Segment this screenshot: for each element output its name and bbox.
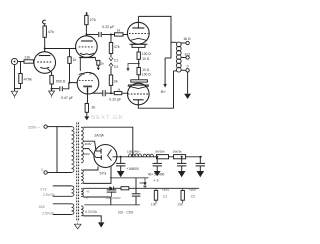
diode D1 [109,186,113,190]
wire [15,65,21,89]
capacitor Cb [148,157,165,183]
svg-text:C2: C2 [191,194,195,198]
triode V2a [76,36,98,58]
svg-text:6.3V/3A: 6.3V/3A [85,210,98,214]
svg-text:10 Ω: 10 Ω [142,68,150,72]
wire [111,92,128,94]
terminal 0V [41,168,57,174]
triode V1 [34,52,56,74]
pentode V3 [127,22,149,44]
V2a cathode network [79,58,98,72]
svg-text:2A/3A: 2A/3A [95,133,105,137]
svg-text:1k: 1k [117,87,121,91]
core T1 [77,123,79,222]
ground [184,72,191,99]
transformer T2 primary wire [171,42,177,71]
wire [20,84,22,89]
wire [85,25,87,36]
wire to C2 [97,65,100,70]
svg-text:100/240v: 100/240v [127,149,140,153]
svg-text:300V: 300V [85,142,92,146]
node [181,156,183,158]
wire [48,69,52,76]
ground core [74,222,81,229]
resistor 100/10 upper [137,52,151,61]
wire [18,61,24,63]
label 620 [118,211,133,215]
resistor R3 47k [43,26,54,37]
svg-text:2k: 2k [92,106,96,110]
svg-text:C2: C2 [114,65,119,69]
V4 base [128,80,149,85]
svg-text:10k/2k: 10k/2k [173,150,183,154]
wire bus2 [84,204,140,206]
wire [110,54,112,58]
wire tap 300V a [83,141,96,151]
svg-text:2Y3: 2Y3 [40,187,46,191]
svg-text:27k: 27k [90,18,96,22]
wire [83,216,101,223]
pentode V4 [128,83,150,105]
resistor R620 [121,187,129,190]
resistor 10/100 lower [137,68,151,77]
wire [138,71,173,108]
node [120,156,122,158]
winding 5Y3 fil [40,186,74,197]
node A [44,48,46,50]
svg-text:500 Ω: 500 Ω [56,80,66,84]
svg-text:11k: 11k [24,55,30,59]
capacitor 100u [83,188,120,200]
ground [84,112,89,120]
svg-text:1k: 1k [117,29,121,33]
wire [52,88,59,90]
node [156,156,158,158]
node [199,156,201,158]
B+ tap [161,58,171,94]
ground bus [110,177,149,179]
svg-text:1k: 1k [73,58,77,62]
wire [114,187,199,189]
svg-text:2A3: 2A3 [39,205,45,209]
resistor 5k/10k [156,150,169,159]
wire tap 0 [181,69,186,71]
svg-text:10 Ω: 10 Ω [142,57,150,61]
V3 base [130,44,148,52]
svg-text:5Y3: 5Y3 [100,172,107,176]
resistor R8 2k [109,75,118,85]
svg-text:+45V: +45V [188,188,197,192]
svg-text:2.5V/3A: 2.5V/3A [43,193,56,197]
svg-text:16 Ω: 16 Ω [183,37,191,41]
wire [138,75,140,80]
svg-text:C1: C1 [163,194,167,198]
transformer T1 primary [57,127,74,173]
resistor 10k C2 [177,188,196,206]
diode D2 [143,178,146,188]
wire [137,16,139,28]
svg-text:+ 5/600V: + 5/600V [126,167,140,171]
terminal 8ohm [185,52,191,59]
wire tap 300V b [83,149,96,158]
watermark [91,115,124,121]
node C [110,34,112,36]
wire [44,37,46,52]
terminal 16ohm [183,37,191,45]
svg-text:0: 0 [187,64,189,68]
svg-text:100µ/160V: 100µ/160V [106,196,121,200]
input jack J1 [11,58,17,64]
wire bias [83,187,109,189]
terminal 0 [186,64,189,72]
choke L1 [127,149,154,156]
capacitor Cd [196,157,205,177]
svg-text:0.47 µF: 0.47 µF [61,96,73,100]
resistor R12 2k [97,60,105,65]
resistor R11 2k [85,94,95,112]
terminal 220V [28,125,57,129]
svg-text:300V: 300V [83,152,90,156]
svg-text:620 · C5W: 620 · C5W [118,211,133,215]
winding 5V [81,166,111,183]
transformer T2 coil [176,42,181,72]
svg-text:47k: 47k [114,45,120,49]
wire [69,63,78,83]
capacitor 0.47uF [60,83,73,100]
wire [110,35,112,43]
wire [102,34,111,36]
terminal C [43,20,46,26]
winding 2A3 fil [39,204,74,216]
svg-text:2k: 2k [114,80,118,84]
resistor R10 1k [68,49,77,64]
wire [111,34,127,36]
wire arrow [127,64,139,72]
connector C2 [109,63,119,69]
wire [110,85,112,94]
wire [138,16,171,58]
node B [85,34,87,36]
svg-text:40+ 5V/400: 40+ 5V/400 [148,172,165,176]
winding bias [81,189,90,201]
capacitor Cc [177,157,186,177]
svg-text:C1: C1 [114,58,119,62]
svg-text:B+: B+ [161,89,167,94]
capacitor Ce [132,178,145,205]
wire [86,34,98,36]
wire [20,62,22,74]
rectifier V5 5Y3 [94,145,117,176]
resistor R4 500 [50,75,66,84]
svg-text:30k: 30k [139,181,144,185]
svg-text:2.5V/3A: 2.5V/3A [42,211,55,215]
svg-text:+45V: +45V [162,188,171,192]
resistor R9 1k [114,87,122,94]
wire [51,84,53,90]
svg-text:0.22 µF: 0.22 µF [102,25,114,29]
ground [49,89,55,98]
wire [34,61,35,63]
capacitor C2 0.22uF [99,25,114,37]
svg-text:10k: 10k [151,203,157,207]
ground [98,222,104,227]
wire [92,92,102,94]
svg-text:× 3: × 3 [153,179,158,183]
capacitor Ca [116,157,140,177]
capacitor C3 0.22uF [103,90,121,101]
resistor R7 47k [109,43,119,54]
terminal B [86,12,88,15]
wire [45,48,76,50]
winding 6.3V [81,206,98,216]
wire tap 16 [181,42,186,44]
winding HV [81,127,104,163]
wire [106,92,111,94]
svg-text:470k: 470k [24,78,32,82]
ground [11,89,17,99]
svg-text:2k: 2k [101,62,105,66]
svg-text:220V ~: 220V ~ [28,125,41,129]
svg-text:47k: 47k [48,30,54,34]
resistor 10k/2k [173,150,186,159]
svg-text:100 Ω: 100 Ω [142,73,151,77]
resistor R5 27k [85,15,96,24]
wire [110,197,112,205]
svg-text:0.22 µF: 0.22 µF [109,98,121,102]
svg-text:0: 0 [41,168,43,172]
wire B rail [113,156,203,158]
resistor R2 470k [19,74,32,84]
svg-text:NEXT.GR: NEXT.GR [91,115,124,121]
svg-text:10k: 10k [177,203,183,207]
wire [110,66,112,75]
svg-text:100 Ω: 100 Ω [142,52,151,56]
svg-text:8 Ω: 8 Ω [185,52,191,56]
connector C1 [109,58,119,63]
wire tap 8 [181,57,186,59]
resistor R1 11k [24,55,34,63]
resistor R6 1k [115,29,124,36]
svg-text:5k/10k: 5k/10k [156,150,166,154]
wire HV top [83,127,133,157]
triode V2b [77,72,99,94]
svg-text:45: 45 [86,189,90,193]
resistor 10k C1 [151,188,170,206]
node D [138,59,140,67]
